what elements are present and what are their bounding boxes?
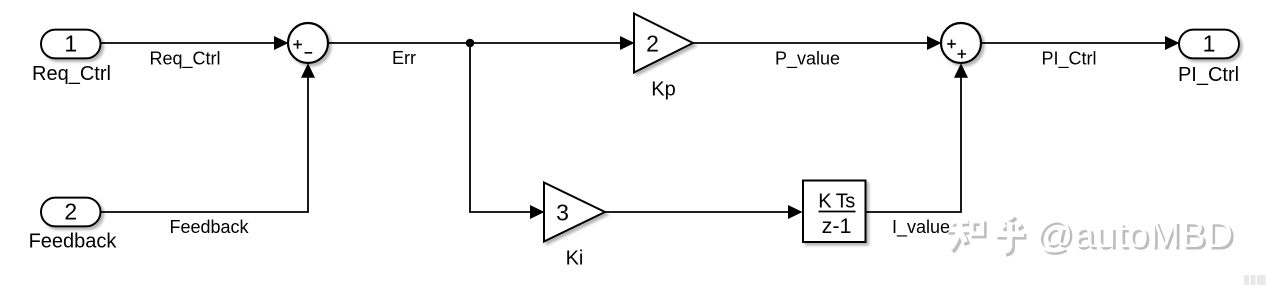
gain block Kp: [634, 14, 693, 73]
arrowhead into outport: [1165, 36, 1180, 50]
inport 1 Req_Ctrl: [41, 30, 101, 59]
corner UI fragment blocks bottom-right: [1244, 275, 1249, 285]
wire Ki to integrator block: [605, 211, 790, 213]
branch wire from Err node down to Ki: [470, 43, 532, 212]
wire feedback horizontal then up into sum1: [101, 74, 309, 212]
sum1 minus sign: [305, 52, 313, 54]
svg-text:I_value: I_value: [892, 217, 950, 238]
integrator fraction line: [819, 211, 856, 213]
svg-text:@autoMBD: @autoMBD: [1035, 214, 1233, 255]
inport 2 Feedback: [41, 198, 101, 227]
svg-text:P_value: P_value: [775, 49, 840, 70]
watermark white emboss copy: [946, 214, 1234, 255]
svg-text:PI_Ctrl: PI_Ctrl: [1041, 49, 1096, 70]
svg-text:PI_Ctrl: PI_Ctrl: [1178, 64, 1239, 86]
arrowhead into integrator: [788, 205, 803, 219]
svg-text:2: 2: [646, 31, 659, 57]
gain block Ki: [544, 183, 605, 242]
arrowhead up into sum1 bottom: [301, 63, 315, 78]
wire integrator right then up into sum2: [866, 74, 962, 212]
arrowhead into Ki: [530, 205, 545, 219]
watermark zhihu logo 知乎: [949, 218, 1027, 254]
arrowhead into sum2: [927, 36, 942, 50]
sum block sum2: [941, 23, 981, 63]
wire Kp to sum2: [693, 42, 929, 44]
wire inport1 to sum1: [101, 42, 277, 44]
sum2 plus sign upper: [947, 40, 956, 49]
svg-text:K Ts: K Ts: [818, 191, 855, 213]
discrete integrator block K Ts / z-1: [803, 181, 866, 243]
arrowhead into sum1: [274, 36, 289, 50]
arrowhead up into sum2 bottom: [954, 63, 968, 78]
svg-text:1: 1: [1203, 31, 1216, 57]
svg-text:3: 3: [556, 200, 569, 226]
sum1 plus sign: [293, 40, 302, 49]
arrowhead into Kp: [620, 36, 635, 50]
svg-text:Feedback: Feedback: [29, 231, 118, 253]
wire sum1 to Kp: [328, 42, 622, 44]
sum block sum1: [288, 23, 328, 63]
branch node dot on Err wire: [466, 39, 475, 48]
svg-text:Kp: Kp: [651, 79, 675, 101]
svg-text:z-1: z-1: [822, 214, 852, 238]
svg-text:Req_Ctrl: Req_Ctrl: [149, 49, 220, 70]
svg-text:2: 2: [64, 199, 77, 225]
wire sum2 to outport: [981, 42, 1167, 44]
svg-text:Ki: Ki: [566, 248, 584, 270]
svg-text:Err: Err: [392, 48, 416, 68]
svg-text:Feedback: Feedback: [169, 217, 249, 237]
outport 1 PI_Ctrl: [1179, 30, 1239, 59]
svg-text:1: 1: [64, 31, 77, 57]
svg-text:Req_Ctrl: Req_Ctrl: [32, 63, 111, 85]
sum2 plus sign lower: [958, 50, 967, 59]
